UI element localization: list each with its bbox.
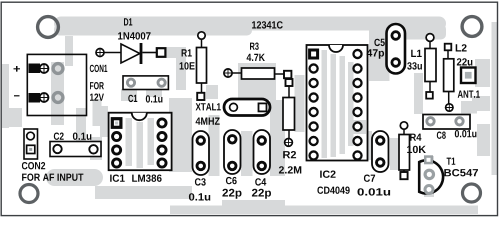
resistor R1	[180, 32, 207, 100]
label FOR 12V	[90, 82, 104, 89]
capacitor C7	[358, 131, 391, 196]
label C6	[226, 177, 237, 184]
value IC1 LM386	[132, 175, 161, 182]
wire through C3/C6 column	[209, 115, 220, 176]
label XTAL1	[196, 103, 221, 110]
capacitor C6	[222, 130, 241, 199]
wire below IC1 labels	[95, 186, 192, 199]
label R3	[250, 43, 259, 50]
label IC2	[320, 171, 335, 178]
label C1	[128, 95, 137, 102]
capacitor C5	[367, 24, 405, 74]
label L1	[411, 50, 422, 57]
value R1 10E	[180, 62, 195, 69]
value C4 22p	[252, 189, 271, 199]
wire below IC2 left corner	[345, 115, 358, 133]
label C4	[255, 178, 266, 185]
label FOR AF INPUT	[22, 174, 83, 181]
label R1	[182, 49, 192, 56]
wire right of IC1 to C3	[169, 98, 192, 172]
wire from D1 cathode pad	[166, 47, 186, 58]
capacitor C2	[50, 133, 101, 157]
transistor T1	[419, 155, 478, 193]
pin 1 pad IC2	[308, 49, 319, 60]
value IC2 CD4049	[317, 187, 349, 194]
value L1 33u	[407, 62, 422, 69]
value T1 BC547	[444, 169, 478, 176]
wire ANT.1 to C8	[461, 101, 477, 114]
label IC1	[110, 175, 125, 182]
label C2	[54, 133, 64, 140]
wire right of C4 column	[270, 100, 285, 176]
wire AF input ground bar	[46, 169, 103, 186]
pin 1 pad IC1	[111, 117, 123, 129]
wire below C1 left pad	[121, 89, 137, 101]
label L2	[456, 44, 467, 51]
wire bottom ground bus	[170, 206, 478, 215]
label C7	[364, 175, 375, 182]
wire right of IC2 patch	[369, 27, 390, 81]
label CON1 minus terminal	[14, 95, 20, 96]
wire top supply bus	[54, 17, 446, 31]
value 1N4007	[118, 32, 151, 39]
capacitor C4	[252, 130, 271, 199]
wire T1 pad column	[424, 156, 434, 197]
wire above XTAL1 left pad	[206, 85, 218, 99]
label C3	[195, 178, 206, 185]
resistor R4	[399, 122, 426, 179]
mounting hole top-right	[462, 17, 482, 37]
resistor R2	[279, 79, 301, 174]
antenna pad ANT.1	[458, 68, 480, 98]
mounting hole bottom-right	[463, 184, 481, 202]
wire CON1 pad column	[51, 62, 64, 125]
value C7 0.01u	[358, 188, 391, 195]
inductor L2	[444, 44, 473, 112]
wire left corner patch	[2, 108, 22, 127]
wire between C7 and R4	[390, 138, 399, 170]
label CON1	[90, 65, 108, 72]
wire bus to CON1 pin1	[65, 36, 73, 66]
value C6 22p	[222, 189, 241, 199]
label CON2	[22, 162, 45, 169]
label C5	[374, 39, 384, 46]
value R3 4.7K	[247, 54, 265, 61]
resistor R3	[224, 43, 292, 80]
crystal XTAL1	[196, 99, 270, 125]
value R2 2.2M	[279, 166, 301, 173]
node ANT.1 label	[458, 91, 480, 98]
connector CON2	[22, 129, 84, 181]
value C8 0.01u	[455, 130, 477, 137]
wire left of IC1 lower	[90, 137, 102, 160]
value C1 0.1u	[146, 95, 163, 102]
wire right edge vertical trace	[492, 22, 498, 175]
wire right edge patch near BC547	[477, 124, 490, 156]
diode D1	[96, 18, 166, 64]
value R4 10K	[407, 146, 426, 153]
mounting hole top-left	[38, 17, 59, 38]
connector CON1	[14, 54, 108, 115]
value C2 0.1u	[73, 133, 92, 140]
wire left of C7	[358, 131, 372, 160]
label R4	[410, 134, 421, 141]
wire CON1 bottom to C2	[76, 108, 86, 142]
wire left edge strip	[2, 64, 9, 128]
label CON1 plus terminal	[14, 66, 21, 72]
capacitor C3	[189, 131, 210, 201]
wire between C6 and C4	[241, 131, 253, 176]
wire right of C8	[472, 96, 490, 111]
wire below C1 right pad	[146, 89, 162, 97]
label D1	[124, 18, 132, 25]
mounting hole bottom-left	[20, 185, 38, 203]
wire between C5 and L1	[414, 73, 423, 114]
wire CON1 to IC1 pin1	[93, 99, 102, 117]
op-amp IC1 LM386	[109, 113, 172, 182]
inductor L1	[407, 34, 436, 99]
wire R3 ground patch	[238, 63, 276, 100]
wire right of R2	[295, 75, 305, 132]
value C5 47p	[367, 49, 384, 58]
value L2 22u	[457, 58, 473, 65]
value C3 0.1u	[189, 193, 210, 200]
label R2	[283, 151, 296, 158]
label board code 12341C	[252, 21, 283, 28]
label T1	[447, 158, 456, 165]
IC IC2 CD4049	[307, 45, 368, 194]
label C8	[437, 132, 446, 139]
wire right of ANT.1	[475, 59, 490, 87]
capacitor C1	[123, 76, 168, 103]
capacitor C8	[423, 115, 476, 139]
wire along IC1 left edge	[100, 106, 108, 137]
value XTAL1 4MHZ	[196, 118, 220, 125]
